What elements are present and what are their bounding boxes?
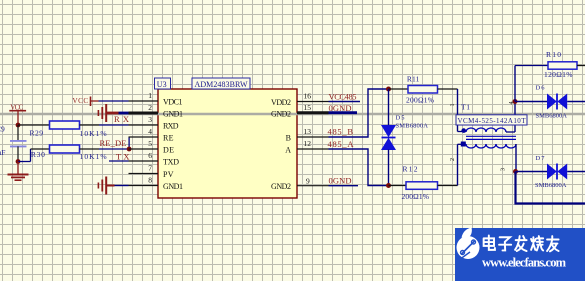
resistor R30 — [18, 145, 99, 162]
wire VCC485 stub (pin16) — [329, 101, 361, 103]
svg-text:1: 1 — [450, 104, 456, 107]
svg-text:6: 6 — [148, 151, 152, 160]
svg-text:VDD2: VDD2 — [271, 98, 291, 107]
svg-text:D7: D7 — [536, 155, 546, 162]
U3 value ADM2483BRW box — [192, 78, 250, 89]
svg-text:GND1: GND1 — [163, 110, 183, 119]
wire 0GND gray bus — [0, 113, 585, 116]
wire pin6 TX stub — [109, 160, 129, 162]
svg-text:ADM2483BRW: ADM2483BRW — [195, 80, 248, 89]
svg-text:R29: R29 — [30, 129, 44, 138]
U3 designator box — [155, 78, 171, 89]
svg-text:10K1%: 10K1% — [80, 129, 107, 138]
elecfans logo — [457, 228, 480, 260]
svg-text:7: 7 — [148, 164, 152, 173]
svg-text:T1: T1 — [461, 103, 470, 112]
svg-text:RXD: RXD — [163, 122, 179, 131]
TVS diode D7 — [516, 164, 585, 180]
svg-text:0GND: 0GND — [329, 175, 352, 185]
svg-text:1: 1 — [148, 91, 152, 100]
resistor R10 — [515, 62, 585, 102]
IC U3 ADM2483BRW body — [158, 89, 297, 198]
U3 pin numbers right — [304, 92, 312, 186]
wire pin8 GND1 — [115, 185, 129, 187]
svg-text:RE_DE: RE_DE — [100, 138, 127, 148]
node bottom rail junction — [386, 183, 391, 188]
svg-text:www.elecfans.com: www.elecfans.com — [482, 255, 567, 269]
wire 485_A (pin12 to bottom rail) — [329, 149, 389, 186]
svg-text:200Ω1%: 200Ω1% — [402, 192, 430, 201]
svg-text:3: 3 — [501, 168, 507, 171]
svg-text:DE: DE — [163, 146, 174, 155]
svg-text:C9: C9 — [0, 125, 5, 134]
wire 0GND stub (pin9) — [329, 185, 359, 187]
wire RE_DE net (R30 to pin5) — [99, 148, 129, 150]
svg-text:D6: D6 — [536, 84, 546, 91]
svg-text:D5: D5 — [396, 115, 405, 122]
U3 pin numbers left — [148, 91, 152, 185]
svg-text:VCC: VCC — [10, 103, 23, 111]
svg-text:RE: RE — [163, 134, 174, 143]
U3 pin names right — [271, 98, 291, 191]
svg-text:SMB6800A: SMB6800A — [536, 113, 568, 120]
node top rail junction — [386, 87, 391, 92]
svg-text:R30: R30 — [31, 150, 45, 159]
svg-text:2: 2 — [148, 103, 152, 112]
svg-text:485_A: 485_A — [328, 139, 355, 149]
wire bottom-right exit — [516, 172, 585, 204]
wire pin2 GND1 — [119, 112, 129, 115]
transformer T1 — [458, 89, 517, 186]
svg-text:15: 15 — [304, 103, 312, 112]
svg-text:VCC: VCC — [73, 97, 89, 105]
svg-text:VCM4-525-142A10T: VCM4-525-142A10T — [458, 117, 527, 125]
TVS diode D5 — [381, 89, 396, 186]
svg-text:PV: PV — [163, 170, 174, 179]
svg-text:U3: U3 — [157, 80, 167, 89]
svg-text:VCC485: VCC485 — [329, 91, 357, 101]
wire pin1 VCC — [99, 100, 129, 102]
U3 pin names left — [163, 98, 183, 192]
banner text dianzifashaoyou — [484, 236, 559, 252]
svg-text:GND2: GND2 — [271, 110, 291, 119]
svg-text:SMB6800A: SMB6800A — [396, 123, 429, 130]
svg-text:R12: R12 — [403, 164, 418, 173]
svg-text:16: 16 — [304, 92, 312, 101]
node T1 pin4 / R10 / D6 junction — [513, 99, 518, 104]
svg-text:8: 8 — [148, 176, 152, 185]
ground (below C9) — [8, 162, 29, 181]
U3 left pin stubs 1-8 — [129, 101, 159, 186]
svg-text:4: 4 — [148, 127, 152, 136]
node RE_DE junction — [127, 147, 132, 152]
svg-text:TX: TX — [116, 152, 130, 162]
svg-text:R11: R11 — [407, 75, 420, 84]
node VCC/R29 junction — [16, 123, 21, 128]
svg-text:SMB6800A: SMB6800A — [535, 182, 567, 189]
svg-text:10K1%: 10K1% — [80, 152, 107, 161]
svg-text:10uF: 10uF — [0, 148, 5, 157]
svg-text:A: A — [285, 146, 291, 155]
svg-text:TXD: TXD — [163, 158, 179, 167]
resistor R29 — [18, 121, 99, 129]
wire RX net (R29 to pin3) — [99, 124, 129, 126]
svg-text:VDC1: VDC1 — [163, 98, 183, 107]
wire 485_B (pin13 to top rail) — [329, 89, 389, 137]
TVS diode D6 — [515, 94, 585, 110]
T1 value box VCM4-525-142A10T — [456, 115, 527, 125]
svg-text:R10: R10 — [546, 50, 561, 59]
svg-text:GND2: GND2 — [271, 182, 291, 191]
svg-text:9: 9 — [306, 177, 310, 186]
power port VCC (top-left) — [9, 111, 26, 125]
U3 right pin stubs 16,15,13,12,9 — [297, 102, 329, 186]
svg-text:3: 3 — [148, 115, 152, 124]
capacitor C9 — [10, 125, 27, 162]
watermark banner (elecfans) — [455, 228, 585, 282]
svg-text:120Ω1%: 120Ω1% — [544, 70, 573, 79]
svg-text:GND1: GND1 — [163, 182, 183, 191]
svg-text:12: 12 — [304, 139, 312, 148]
svg-text:485_B: 485_B — [328, 127, 354, 137]
resistor R12 — [389, 182, 458, 190]
svg-text:B: B — [286, 134, 291, 143]
resistor R11 — [389, 86, 458, 94]
svg-text:200Ω1%: 200Ω1% — [406, 96, 434, 105]
ground (pin2 GND1, rotated) — [98, 104, 118, 122]
node T1 pin3 / D7 junction — [513, 169, 518, 174]
wire pin4/pin5 tie (RE to DE) — [128, 137, 130, 149]
wire 0GND stub (pin15) — [329, 111, 358, 114]
svg-text:2: 2 — [450, 158, 456, 161]
node C9/R30 junction — [16, 159, 21, 164]
svg-text:13: 13 — [304, 127, 312, 136]
ground (pin8 GND1, rotated) — [98, 177, 114, 195]
svg-text:5: 5 — [148, 139, 152, 148]
